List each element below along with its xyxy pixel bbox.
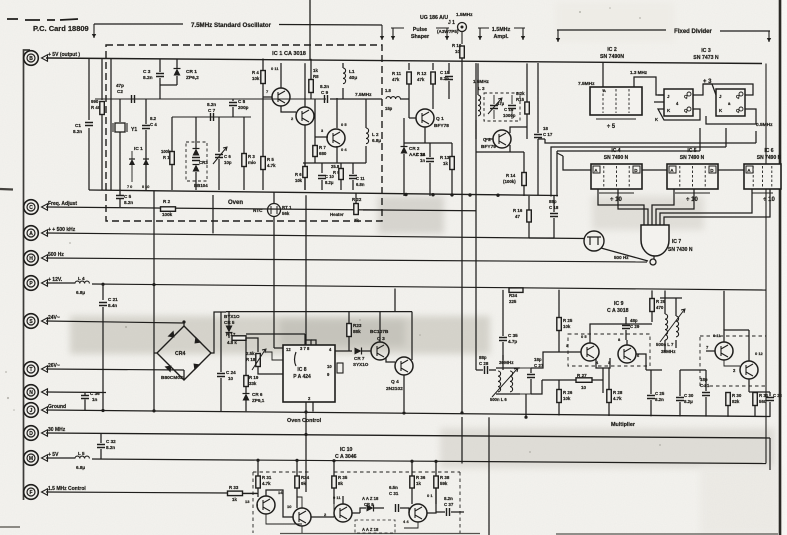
- wire C31 to T4: [400, 508, 409, 513]
- wire L7 top bus: [660, 297, 682, 299]
- diode CR7: [355, 348, 362, 355]
- wire C15 down: [448, 81, 450, 99]
- wire R31 top: [754, 391, 756, 393]
- hidden: [662, 369, 680, 371]
- dashed box L3 trimmer: [484, 93, 520, 121]
- svg-text:8.2: 8.2: [150, 116, 157, 121]
- svg-text:Heater: Heater: [330, 212, 344, 217]
- svg-text:38MHz: 38MHz: [661, 349, 676, 354]
- hidden: [590, 331, 626, 343]
- wire T2 emitter down: [304, 125, 306, 190]
- resistor R10: [460, 46, 465, 58]
- svg-text:(100k): (100k): [503, 179, 516, 184]
- wire C30 down: [679, 402, 681, 417]
- wire NTC down: [273, 217, 275, 349]
- wire collector up 12V: [723, 291, 725, 330]
- wire Qa to Jb: [693, 84, 716, 95]
- IC2 SN7490N: [590, 87, 642, 115]
- transistor T2 of IC1: [296, 107, 314, 125]
- wire T1 base stub: [257, 504, 258, 506]
- wire emitter bus: [303, 162, 366, 164]
- svg-text:CR 7: CR 7: [354, 356, 365, 361]
- wire +5V M to L5: [46, 457, 75, 459]
- wire bus2: [551, 147, 726, 197]
- wire C29 to R29: [626, 323, 652, 325]
- wire R9 down: [340, 180, 342, 190]
- wire R14 down: [523, 186, 525, 196]
- wire drop C1: [88, 59, 90, 121]
- wire C35 join: [502, 355, 504, 370]
- wire C14 down: [429, 163, 431, 196]
- wire T4 emitter: [404, 522, 418, 528]
- resistor R34 amp: [295, 476, 300, 488]
- svg-text:C 18: C 18: [549, 205, 559, 210]
- IC3 flip-flop B: [716, 89, 745, 116]
- wire trim top: [493, 95, 495, 104]
- svg-text:0 11: 0 11: [271, 66, 279, 71]
- svg-text:R34: R34: [509, 293, 518, 298]
- junction dots on shaper rail: [404, 193, 407, 196]
- svg-text:6.8μ: 6.8μ: [76, 290, 85, 295]
- dashed box IC10: [253, 472, 460, 533]
- wire Q2 base: [485, 138, 493, 140]
- wire R26 top: [558, 380, 560, 390]
- wire R27 left: [542, 379, 576, 381]
- capacitor C18: [550, 214, 558, 217]
- arrow: [522, 28, 524, 40]
- svg-text:0 1: 0 1: [427, 493, 433, 498]
- svg-text:990: 990: [91, 99, 99, 104]
- diode IC1-a: [129, 159, 135, 165]
- svg-text:R 38: R 38: [440, 475, 450, 480]
- svg-text:560: 560: [759, 399, 767, 404]
- wire Q2 emitter: [509, 145, 511, 152]
- wire out2: [618, 189, 648, 225]
- resistor R9: [339, 169, 344, 180]
- diode CR8: [367, 505, 374, 512]
- wire CR2 down: [403, 154, 405, 196]
- bottom border segments: [280, 533, 778, 535]
- svg-text:2N2102: 2N2102: [386, 386, 403, 392]
- svg-text:59k: 59k: [440, 481, 448, 486]
- svg-text:C 11: C 11: [356, 176, 365, 181]
- wire 1.5MHz control rail: [46, 492, 228, 493]
- svg-text:26V~: 26V~: [48, 363, 60, 369]
- wire IC8 pin7 up: [305, 340, 311, 345]
- svg-text:8.2n: 8.2n: [207, 102, 216, 107]
- IC8 curl mark: [295, 352, 297, 366]
- svg-text:A A Z 18: A A Z 18: [362, 527, 379, 532]
- svg-text:SN 7430 N: SN 7430 N: [668, 247, 693, 253]
- capacitor C21: [99, 303, 107, 306]
- wire oven bus y311: [226, 311, 412, 313]
- svg-text:Pulse: Pulse: [413, 27, 427, 33]
- wire C11 top: [352, 163, 354, 174]
- svg-text:100k: 100k: [161, 149, 171, 154]
- diode CR5: [226, 326, 233, 333]
- wire R29 top: [651, 290, 653, 298]
- svg-text:10: 10: [455, 49, 460, 54]
- oscillator dashed enclosure: [106, 45, 382, 221]
- wire C24 down: [220, 378, 222, 411]
- scan smudge band left: [70, 316, 490, 354]
- dashed box IC9 pair: [568, 334, 650, 366]
- svg-text:1n: 1n: [92, 397, 98, 402]
- resistor R15: [525, 102, 530, 114]
- wire 500Hz rail: [46, 258, 647, 262]
- svg-text:200p: 200p: [238, 105, 249, 110]
- wire RT1 top: [273, 192, 275, 203]
- svg-text:CR 6: CR 6: [252, 392, 263, 397]
- svg-text:10: 10: [287, 504, 292, 509]
- wire R6 top: [304, 163, 306, 167]
- wire +5V top rail: [46, 58, 762, 64]
- svg-text:10: 10: [327, 364, 332, 369]
- capacitor C1: [85, 123, 93, 126]
- wire b top: [703, 84, 753, 95]
- wire R15 down: [526, 114, 528, 139]
- wire C4 down: [145, 130, 147, 190]
- svg-text:C 21: C 21: [108, 297, 118, 302]
- svg-text:C 15: C 15: [440, 70, 450, 75]
- svg-text:CR3: CR3: [199, 160, 208, 165]
- resistor R18 pot: [256, 354, 260, 367]
- wire bridge out up: [211, 312, 226, 353]
- wire vertical x306c: [305, 434, 307, 492]
- wire collector bus up to 12V: [394, 289, 396, 312]
- svg-text:R 18: R 18: [246, 357, 256, 362]
- svg-text:IC 5: IC 5: [687, 148, 696, 154]
- wire x476 to tank: [475, 289, 477, 370]
- svg-text:Oven Control: Oven Control: [287, 418, 322, 424]
- resistor R26: [557, 390, 562, 403]
- wire R31a top: [257, 460, 259, 476]
- wire C16 top: [511, 95, 513, 104]
- terminal F: [24, 485, 48, 500]
- svg-text:56k: 56k: [282, 211, 290, 216]
- wire +12V to L4: [46, 282, 75, 284]
- svg-text:Shaper: Shaper: [411, 34, 430, 40]
- wire inner left rail: [110, 59, 112, 190]
- svg-text:C 30: C 30: [684, 393, 694, 398]
- resistor R28: [607, 390, 612, 403]
- wire T3 base: [315, 136, 328, 138]
- wire R13 tie: [430, 142, 452, 144]
- svg-text:2.5k: 2.5k: [246, 351, 255, 356]
- svg-text:10k: 10k: [252, 76, 260, 81]
- svg-text:8.2n: 8.2n: [444, 496, 453, 501]
- resistor R40: [100, 102, 105, 115]
- wire C5 top lead: [119, 190, 121, 195]
- wire bus3 left drop: [556, 151, 558, 197]
- svg-text:C: C: [29, 205, 33, 211]
- svg-text:R 22: R 22: [352, 197, 362, 202]
- wire T3 base tie: [333, 494, 335, 517]
- wire out node: [646, 369, 662, 371]
- wire R19 top: [245, 338, 247, 375]
- svg-text:R 11: R 11: [392, 71, 402, 76]
- svg-text:Multiplier: Multiplier: [611, 422, 636, 428]
- svg-text:CR 8: CR 8: [364, 502, 374, 507]
- svg-text:C2: C2: [117, 89, 123, 94]
- svg-text:A: A: [603, 88, 606, 93]
- svg-text:R 40: R 40: [91, 105, 101, 110]
- svg-text:C 3: C 3: [143, 69, 151, 75]
- arrow: [557, 30, 559, 42]
- wire bus to IC4: [563, 156, 591, 170]
- wire R30 top stub: [727, 391, 729, 393]
- wire drop R4: [262, 59, 264, 71]
- zener diode CR1: [174, 69, 181, 76]
- terminal T: [24, 362, 48, 377]
- capacitor C3: [156, 74, 164, 77]
- wire Y1 top: [119, 99, 121, 122]
- svg-text:8.2n: 8.2n: [124, 200, 133, 205]
- svg-text:Y1: Y1: [131, 127, 137, 133]
- svg-text:UG 186 A/U: UG 186 A/U: [420, 15, 448, 21]
- scan smudge divider: [592, 196, 704, 230]
- resistor R5: [261, 157, 266, 170]
- svg-text:NTC: NTC: [253, 208, 263, 213]
- wire bus1: [545, 139, 756, 143]
- wire vertical x462: [461, 196, 463, 412]
- wire T2 to T3 base: [311, 516, 334, 518]
- scan smudge top right: [555, 2, 675, 42]
- wire ic1 diode a2: [131, 165, 133, 182]
- wire 24V to bridge: [183, 322, 185, 326]
- svg-text:30MHz: 30MHz: [499, 360, 514, 365]
- svg-text:C 6: C 6: [224, 154, 231, 159]
- left edge mark: [0, 188, 13, 191]
- wire IC8 top bus: [246, 333, 305, 335]
- wire C1 to bottom: [88, 128, 90, 190]
- resistor R7: [313, 146, 318, 157]
- wire T3 collector up: [336, 98, 338, 128]
- header arrow left: [93, 24, 95, 38]
- IC4 underline bracket: [599, 192, 634, 194]
- svg-text:C1: C1: [75, 123, 81, 128]
- wire T1 base: [263, 96, 272, 98]
- wire L1 down: [342, 88, 344, 99]
- wire L2 down: [365, 146, 367, 163]
- svg-text:10: 10: [228, 376, 234, 381]
- wire R7 top: [314, 137, 316, 146]
- capacitor C14: [426, 159, 434, 162]
- left speckles: [5, 7, 661, 453]
- svg-text:500 Hz: 500 Hz: [614, 255, 629, 260]
- wire R23 down: [348, 337, 350, 351]
- svg-text:R15: R15: [516, 97, 525, 102]
- svg-text:7.5MHz Standard Oscillator: 7.5MHz Standard Oscillator: [191, 22, 272, 29]
- wire T3 emitter down: [336, 146, 338, 163]
- terminal B: [24, 51, 48, 66]
- svg-text:BYX1O: BYX1O: [224, 314, 240, 319]
- wire 26V rail: [46, 369, 184, 370]
- svg-text:0 10: 0 10: [142, 185, 149, 189]
- transistor Q1: [416, 109, 434, 127]
- resistor R31 output: [753, 393, 758, 406]
- wire R16 down: [528, 222, 530, 238]
- svg-text:6.8μ: 6.8μ: [76, 465, 85, 470]
- svg-text:Q 4: Q 4: [391, 379, 399, 385]
- svg-text:33k: 33k: [249, 381, 257, 386]
- wire to Q2 base: [475, 120, 477, 139]
- wire C18 down: [553, 218, 555, 238]
- svg-text:P A 424: P A 424: [293, 374, 311, 380]
- arrow: [479, 28, 481, 40]
- wire R23 top: [348, 312, 350, 323]
- svg-text:10k: 10k: [563, 324, 571, 329]
- wire emitter down: [602, 368, 604, 393]
- wire C29 top: [625, 317, 627, 324]
- svg-text:L 2: L 2: [372, 132, 379, 137]
- inductor L2: [366, 128, 369, 144]
- wire bus3: [557, 150, 700, 152]
- svg-text:C 16: C 16: [504, 107, 514, 112]
- terminal S: [24, 314, 48, 329]
- wire drop C15: [448, 63, 450, 74]
- wire tank to IC9 base: [531, 352, 573, 368]
- wire C27 to R27: [531, 380, 542, 394]
- wire R7 down: [314, 157, 316, 163]
- wire T2 collector: [297, 497, 302, 508]
- wire out pair base: [706, 350, 715, 352]
- wire long vertical x154: [153, 191, 155, 412]
- terminal D: [24, 426, 48, 441]
- resistor R29: [650, 299, 655, 312]
- svg-text:A A Z 18: A A Z 18: [362, 496, 379, 501]
- wire drop R1: [171, 117, 173, 152]
- wire R11 down: [408, 84, 410, 118]
- wire CR8 out: [374, 507, 384, 509]
- svg-text:M: M: [29, 456, 33, 462]
- wire C27 top: [530, 368, 532, 373]
- wire outa emitter: [724, 360, 740, 366]
- wire IC8 pin2 down: [312, 402, 314, 412]
- transistor IC9 T1: [581, 343, 599, 361]
- svg-text:0 5: 0 5: [341, 122, 347, 127]
- capacitor C10: [318, 176, 326, 179]
- wire CR3 top: [195, 117, 197, 148]
- svg-text:F: F: [29, 490, 32, 496]
- wire T3 collector up: [342, 496, 344, 504]
- wire T1 to T2: [266, 490, 293, 517]
- wire T2 collector up: [304, 63, 306, 107]
- wire drop C6: [218, 117, 220, 152]
- wire drop C21: [102, 285, 104, 300]
- wire L7a top: [664, 291, 666, 315]
- svg-text:8.2n: 8.2n: [320, 84, 329, 89]
- wire CR1 down: [176, 76, 178, 85]
- terminal J: [24, 403, 48, 418]
- svg-text:6.8μ: 6.8μ: [372, 138, 381, 143]
- capacitor C16: [508, 106, 516, 109]
- svg-text:R 12: R 12: [417, 71, 427, 76]
- wire R36 down: [411, 488, 413, 504]
- transistor amp T1: [257, 496, 275, 514]
- svg-text:8.2μ: 8.2μ: [684, 399, 693, 404]
- svg-text:C 32: C 32: [106, 439, 116, 444]
- wire R38 down: [435, 488, 437, 504]
- wire freq ext: [382, 209, 476, 212]
- wire drop C10: [321, 163, 323, 173]
- wire R18 to IC8: [258, 367, 283, 374]
- svg-text:L 4: L 4: [78, 276, 85, 281]
- svg-text:C 25: C 25: [655, 391, 665, 396]
- resistor R12: [431, 72, 436, 84]
- wire Q4 emitter down: [403, 375, 405, 411]
- svg-text:C 24: C 24: [226, 370, 236, 375]
- wire drop R11: [408, 63, 410, 70]
- svg-text:SN 7490 N: SN 7490 N: [680, 155, 705, 161]
- transistor Q output b: [740, 361, 758, 379]
- svg-text:÷ 10: ÷ 10: [763, 197, 775, 203]
- inductor series L: [386, 97, 400, 99]
- trimmer arrow L6: [492, 368, 518, 397]
- capacitor C6 trimmer: [215, 155, 223, 158]
- svg-text:÷ 10: ÷ 10: [610, 197, 622, 203]
- wire vertical x476 low: [475, 139, 477, 289]
- svg-text:C 29: C 29: [630, 324, 640, 329]
- resistor R22: [354, 204, 359, 215]
- svg-text:10k: 10k: [563, 396, 571, 401]
- wire R16 top: [528, 196, 530, 210]
- svg-text:7k: 7k: [354, 218, 359, 223]
- trimmer arrow C6: [213, 147, 227, 164]
- svg-text:C A 3046: C A 3046: [335, 454, 357, 460]
- svg-text:4.7k: 4.7k: [613, 396, 622, 401]
- wire C36 down: [84, 400, 86, 411]
- svg-text:40μ: 40μ: [349, 75, 357, 81]
- wire R28 top: [608, 368, 610, 390]
- svg-text:9k: 9k: [301, 481, 306, 486]
- wire oscillator mid rail 7.5MHz: [95, 98, 326, 100]
- wire L3 top: [477, 63, 479, 95]
- svg-text:47μ: 47μ: [497, 101, 505, 106]
- svg-text:8.2μ: 8.2μ: [325, 180, 334, 185]
- wire out5: [660, 189, 752, 225]
- IC5 SN7490N: [667, 164, 718, 189]
- svg-text:C 35: C 35: [508, 333, 518, 338]
- svg-text:1k: 1k: [313, 68, 318, 73]
- wire pot wiper: [266, 352, 283, 360]
- svg-text:ZP6,2: ZP6,2: [186, 75, 199, 81]
- wire to CR8: [360, 508, 366, 513]
- svg-text:C 9: C 9: [321, 90, 329, 95]
- wire R22 right: [363, 209, 382, 211]
- node 500Hz output bubble: [650, 259, 656, 265]
- resistor R19: [244, 376, 249, 387]
- svg-text:1.5MHz: 1.5MHz: [492, 27, 511, 33]
- svg-text:Ground: Ground: [48, 404, 66, 410]
- wire R4 down: [262, 84, 264, 99]
- wire R9 top: [340, 163, 342, 169]
- wire Q2 collector: [510, 127, 527, 133]
- wire K A in stub: [654, 101, 664, 103]
- capacitor C15: [445, 77, 453, 80]
- transistor T1 of IC1: [272, 88, 290, 106]
- 1.5MHz Ampl bracket: [478, 27, 525, 29]
- svg-text:ZP9,1: ZP9,1: [252, 398, 265, 403]
- svg-text:Oven: Oven: [228, 200, 243, 206]
- wire C10 down: [321, 180, 323, 190]
- wire TT diag: [601, 248, 648, 261]
- arrow: [768, 31, 770, 42]
- terminal C: [24, 200, 48, 215]
- svg-text:15p: 15p: [385, 106, 393, 111]
- wire C35 down: [502, 342, 504, 360]
- inductor L3: [478, 95, 481, 116]
